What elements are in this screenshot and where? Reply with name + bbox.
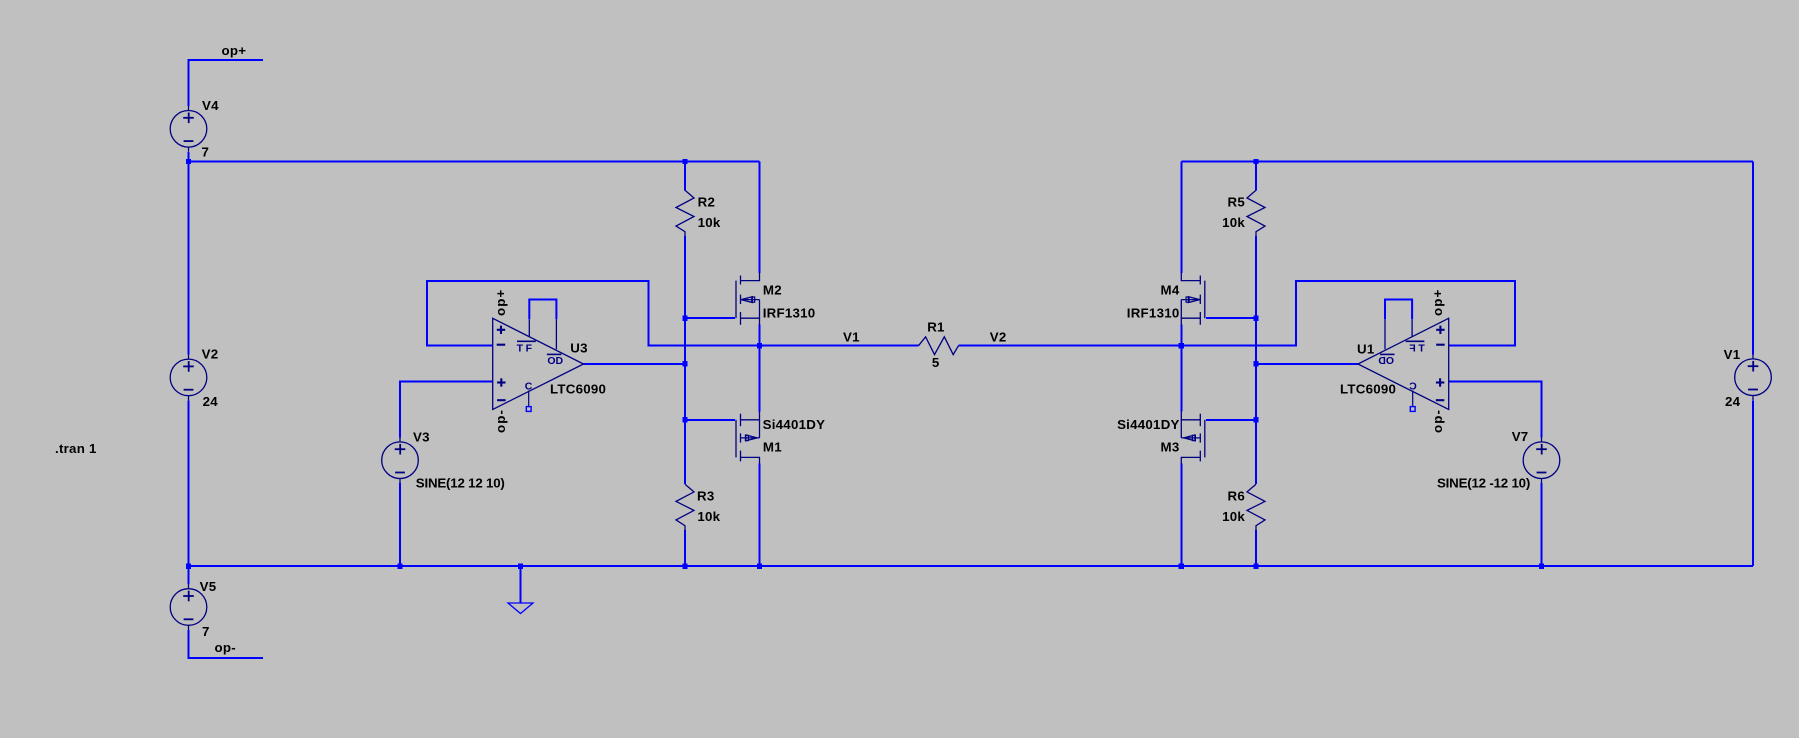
wire bottom rail (189, 565, 1754, 567)
svg-text:IRF1310: IRF1310 (763, 305, 816, 320)
svg-text:SINE(12 12 10): SINE(12 12 10) (416, 475, 505, 490)
junction M3 gate / gate column (1253, 417, 1258, 422)
voltage source V2 (170, 354, 207, 400)
resistor R5 (1247, 190, 1265, 236)
wire M4 drain column (1180, 162, 1182, 274)
svg-text:R2: R2 (698, 195, 716, 210)
svg-text:R6: R6 (1228, 489, 1246, 504)
ground (508, 603, 533, 614)
voltage source V5 (170, 584, 207, 630)
resistor R1 (919, 337, 959, 355)
svg-text:24: 24 (1725, 394, 1741, 409)
op-amp U3 (493, 300, 584, 412)
wire op+ flag top left (189, 60, 264, 106)
svg-text:V2: V2 (990, 329, 1007, 344)
wire bottom rail to V5 (188, 566, 190, 584)
svg-text:LTC6090: LTC6090 (1340, 381, 1396, 396)
wire gate column right (1255, 236, 1257, 484)
wire op- flag bottom left (189, 630, 264, 658)
svg-text:OD: OD (547, 355, 563, 367)
wire U1 feedback loop (1181, 281, 1515, 346)
junction bottom rail / ground (518, 564, 523, 569)
svg-text:V4: V4 (202, 98, 219, 113)
svg-text:10k: 10k (1222, 509, 1245, 524)
junction node V1 (757, 343, 762, 348)
svg-text:10k: 10k (698, 215, 721, 230)
svg-text:op+: op+ (1430, 289, 1445, 316)
junction U3 output / gate column (682, 361, 687, 366)
wire M2 gate (685, 317, 735, 319)
svg-text:Si4401DY: Si4401DY (763, 417, 826, 432)
wire V1 to bottom rail (1752, 400, 1754, 566)
junction bottom rail / V2 V5 (186, 564, 191, 569)
wire M1 drain to bottom rail (759, 463, 761, 566)
svg-text:24: 24 (203, 394, 219, 409)
svg-text:SINE(12 -12 10): SINE(12 -12 10) (1437, 475, 1530, 490)
wire V4 to top rail (188, 152, 190, 162)
wire R6 to bottom rail (1255, 530, 1257, 566)
wire V7 to bottom rail (1541, 483, 1543, 566)
svg-text:V5: V5 (200, 579, 217, 594)
resistor R2 (676, 190, 694, 236)
junction node V2 (1179, 343, 1184, 348)
svg-text:R3: R3 (697, 489, 715, 504)
junction bottom rail / R3 (682, 564, 687, 569)
svg-text:op-: op- (215, 640, 236, 655)
resistor R6 (1247, 484, 1265, 530)
svg-text:U1: U1 (1357, 342, 1375, 357)
svg-text:op-: op- (1430, 409, 1445, 433)
svg-text:TF: TF (517, 342, 535, 354)
wire top rail to R5 (1255, 162, 1257, 191)
wire U3 feedback loop (427, 281, 760, 346)
wire M1 gate (685, 419, 735, 421)
wire M2 source to node V1 (759, 325, 761, 346)
op-amp U1 (1358, 300, 1449, 412)
wire U3 +in from V3 (400, 382, 493, 438)
wire top rail to V2 (188, 162, 190, 355)
wire U1 output (1256, 363, 1358, 365)
wire R1 to node V2 (959, 345, 1182, 347)
voltage source V3 (382, 437, 419, 483)
svg-text:V1: V1 (1724, 347, 1741, 362)
wire V2 to bottom rail (188, 400, 190, 566)
svg-text:M4: M4 (1161, 283, 1180, 298)
wire top rail right section (1181, 161, 1753, 163)
wire node V2 to M3 source (1180, 346, 1182, 412)
svg-text:7: 7 (202, 624, 210, 639)
wire M2 drain column (759, 162, 761, 274)
voltage source V1 (1735, 354, 1772, 400)
svg-text:10k: 10k (1222, 215, 1245, 230)
wire M3 gate (1206, 419, 1256, 421)
svg-text:op-: op- (493, 409, 508, 433)
svg-text:7: 7 (202, 145, 210, 160)
junction M1 gate / gate column (682, 417, 687, 422)
wire node V1 to M1 source (759, 346, 761, 412)
wire U1 +in from V7 (1449, 382, 1542, 438)
wire M4 gate (1206, 317, 1256, 319)
junction R5 / M4 gate (1253, 316, 1258, 321)
svg-text:R5: R5 (1228, 195, 1246, 210)
svg-text:M2: M2 (763, 283, 782, 298)
wire top rail to R2 (684, 162, 686, 191)
junction R2 / M2 gate (682, 316, 687, 321)
junction bottom rail / V3 (397, 564, 402, 569)
junction bottom rail / M3 (1179, 564, 1184, 569)
wire top rail to V1 (1752, 162, 1754, 355)
wire M3 drain to bottom rail (1180, 463, 1182, 566)
transistor M4 (1181, 273, 1205, 326)
svg-text:V2: V2 (202, 347, 219, 362)
svg-text:V1: V1 (843, 329, 860, 344)
junction top rail / R2 (682, 159, 687, 164)
wire U3 output (584, 363, 686, 365)
wire node V1 to R1 (760, 345, 919, 347)
wire V3 to bottom rail (399, 483, 401, 566)
voltage source V7 (1523, 437, 1560, 483)
junction U1 output / gate column (1253, 361, 1258, 366)
svg-text:op+: op+ (493, 289, 508, 316)
svg-text:R1: R1 (927, 320, 945, 335)
svg-text:5: 5 (932, 355, 940, 370)
svg-text:M1: M1 (763, 440, 782, 455)
svg-text:LTC6090: LTC6090 (550, 381, 606, 396)
transistor M1 (736, 411, 760, 463)
transistor M3 (1181, 411, 1205, 463)
junction top rail / R5 (1253, 159, 1258, 164)
wire M4 source to node V2 (1180, 325, 1182, 346)
svg-text:10k: 10k (697, 509, 720, 524)
svg-text:IRF1310: IRF1310 (1127, 305, 1180, 320)
junction top rail / V4 (186, 159, 191, 164)
wire gate column left (684, 236, 686, 484)
svg-text:V7: V7 (1512, 429, 1529, 444)
wire R3 to bottom rail (684, 530, 686, 566)
wire ground stub (520, 566, 522, 603)
junction bottom rail / M1 (757, 564, 762, 569)
svg-text:Si4401DY: Si4401DY (1117, 417, 1180, 432)
svg-text:U3: U3 (570, 341, 588, 356)
svg-text:V3: V3 (413, 430, 430, 445)
junction bottom rail / R6 (1253, 564, 1258, 569)
junction bottom rail / V7 (1539, 564, 1544, 569)
svg-text:M3: M3 (1161, 440, 1180, 455)
transistor M2 (736, 273, 760, 326)
svg-text:.tran 1: .tran 1 (55, 441, 97, 456)
wire top rail left section (189, 161, 760, 163)
svg-text:op+: op+ (222, 43, 247, 58)
voltage source V4 (170, 106, 207, 152)
resistor R3 (676, 484, 694, 530)
